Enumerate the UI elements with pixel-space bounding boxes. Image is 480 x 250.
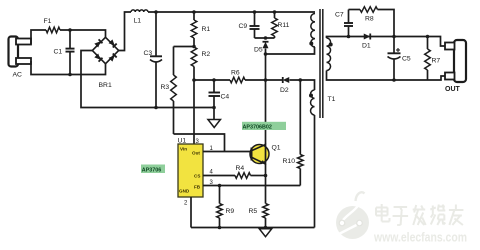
- resistor R2: [191, 47, 197, 80]
- label C7: [335, 12, 344, 19]
- svg-text:FB: FB: [194, 185, 201, 190]
- capacitor C5 electrolytic: [388, 37, 401, 81]
- junction C9 top: [253, 10, 257, 14]
- svg-text:R9: R9: [226, 208, 235, 215]
- svg-text:R2: R2: [202, 51, 211, 58]
- svg-text:AC: AC: [13, 72, 23, 79]
- resistor R4: [235, 173, 251, 179]
- svg-text:R5: R5: [249, 208, 258, 215]
- label D5: [254, 47, 263, 54]
- bridge diode bottom-left: [94, 54, 102, 62]
- svg-text:R3: R3: [161, 84, 170, 91]
- highlight label AP3706B02: [242, 122, 286, 131]
- wire secondary top rail: [327, 37, 446, 47]
- wire U1 pin 1 to Q1 base: [203, 151, 252, 153]
- junction C3 top: [154, 10, 158, 14]
- pin 3 lower label: [210, 180, 214, 186]
- wire U1 pin 2 ground: [190, 197, 192, 228]
- label R6: [231, 70, 240, 77]
- wire top AC rail to bridge: [60, 30, 106, 38]
- label AC: [13, 72, 23, 79]
- U1 pin name Vin: [180, 147, 187, 152]
- junction C4 ground on negative rail: [212, 106, 216, 110]
- svg-text:BR1: BR1: [99, 82, 112, 89]
- highlight label AP3706 near U1: [141, 165, 165, 174]
- wire snubber top: [349, 9, 361, 11]
- junction C4 top: [212, 78, 216, 82]
- capacitor C1: [66, 30, 75, 75]
- junction C1 bottom: [68, 73, 72, 77]
- wire R1-R2 junction to R3: [174, 46, 195, 48]
- wire main DC rail: [148, 11, 315, 13]
- AC input plug connector: [9, 37, 32, 67]
- diode D1: [364, 34, 371, 40]
- label R4: [236, 165, 245, 172]
- pin 4 label: [210, 170, 214, 176]
- svg-text:C4: C4: [221, 94, 230, 101]
- svg-text:OUT: OUT: [445, 86, 461, 93]
- wire AC neutral return: [31, 61, 106, 75]
- U1 pin name GND: [179, 189, 190, 194]
- label R11: [278, 22, 290, 29]
- junction switch node top: [264, 52, 268, 56]
- svg-text:CS: CS: [194, 174, 200, 179]
- junction C5 top: [392, 35, 396, 39]
- wire bridge positive to L1: [119, 12, 131, 51]
- svg-text:R8: R8: [365, 16, 374, 23]
- svg-text:U1: U1: [178, 138, 187, 145]
- svg-text:C7: C7: [335, 12, 344, 19]
- wire bridge negative to ground rail: [81, 51, 214, 108]
- label D2: [280, 87, 289, 94]
- svg-text:Vin: Vin: [180, 147, 187, 152]
- label D1: [362, 43, 371, 50]
- resistor R11: [272, 12, 278, 38]
- junction emitter sense node: [264, 174, 268, 178]
- U1 pin name FB: [194, 185, 201, 190]
- pin 1 label: [210, 146, 214, 152]
- capacitor C9: [250, 12, 260, 38]
- wire R3 to base-bias node: [174, 134, 225, 152]
- wire U1 pin 4 CS: [203, 175, 235, 177]
- bridge diode top-right: [109, 39, 117, 47]
- junction C7 tap: [347, 35, 351, 39]
- pin 2 label: [184, 201, 188, 207]
- wire switch node vertical to Q1 collector: [265, 54, 267, 144]
- bridge diode bottom-right: [109, 54, 117, 62]
- wire Q1 emitter to R5: [265, 164, 267, 204]
- svg-text:D2: D2: [280, 87, 289, 94]
- wire U1 pin 3 FB: [203, 185, 300, 187]
- transformer T1 primary winding: [311, 14, 315, 48]
- junction D5 top: [264, 36, 268, 40]
- junction R1 top: [192, 10, 196, 14]
- primary phase dot: [309, 42, 313, 46]
- svg-text:D5: D5: [254, 47, 263, 54]
- ground symbol signal: [259, 229, 272, 237]
- capacitor C3 electrolytic: [150, 12, 162, 108]
- bridge rectifier BR1 diamond: [92, 37, 118, 63]
- label U1: [178, 138, 187, 145]
- svg-text:F1: F1: [44, 18, 52, 25]
- label R10: [283, 158, 296, 165]
- label L1: [134, 18, 142, 25]
- pin 3 label: [196, 139, 200, 145]
- capacitor C4: [209, 80, 221, 120]
- resistor R8: [360, 7, 378, 13]
- wire signal ground rail: [191, 227, 315, 229]
- junction R9 bottom: [218, 226, 222, 230]
- wire aux winding return: [314, 115, 316, 228]
- label C1: [54, 49, 63, 56]
- wire Vcc vertical to U1 pin 3: [193, 80, 195, 144]
- svg-text:C5: C5: [402, 56, 411, 63]
- svg-text:R6: R6: [231, 70, 240, 77]
- ground symbol primary: [208, 120, 221, 128]
- svg-text:L1: L1: [134, 18, 142, 25]
- svg-text:www.elecfans.com: www.elecfans.com: [373, 231, 467, 245]
- wire D2 to aux winding: [290, 80, 315, 90]
- junction switch node on Vcc line: [264, 78, 268, 82]
- svg-text:R7: R7: [432, 58, 441, 65]
- label R2: [202, 51, 211, 58]
- junction R1 R2 R3: [192, 45, 196, 49]
- U1 pin name Out: [192, 151, 200, 156]
- junction R11 top: [273, 10, 277, 14]
- junction C3 bottom on negative rail: [154, 106, 158, 110]
- label OUT: [445, 86, 461, 93]
- bridge diode top-left: [94, 39, 102, 47]
- svg-text:C9: C9: [239, 23, 248, 30]
- svg-text:D1: D1: [362, 43, 371, 50]
- junction R7 top: [426, 35, 430, 39]
- wire clamp bottom: [255, 37, 275, 39]
- label R9: [226, 208, 235, 215]
- junction C1 top: [68, 28, 72, 32]
- resistor R3: [171, 47, 177, 135]
- svg-text:Out: Out: [192, 151, 200, 156]
- label C3: [144, 50, 153, 57]
- wire R6 to D2: [245, 79, 283, 81]
- junction R9 top: [218, 184, 222, 188]
- fuse F1: [46, 27, 60, 33]
- auxiliary phase dot: [309, 94, 313, 98]
- resistor R6: [230, 77, 245, 83]
- svg-text:C1: C1: [54, 49, 63, 56]
- wire secondary bottom rail: [327, 71, 446, 81]
- label C4: [221, 94, 230, 101]
- resistor R7: [425, 37, 431, 81]
- transformer auxiliary winding: [311, 90, 315, 115]
- label C5: [402, 56, 411, 63]
- wire switch node to primary bottom: [266, 47, 315, 54]
- wire R4 to emitter node: [251, 175, 266, 177]
- junction Vcc node: [192, 78, 196, 82]
- transformer core: [320, 9, 323, 118]
- secondary phase dot: [329, 43, 333, 47]
- output plug connector OUT: [445, 40, 466, 82]
- svg-text:R11: R11: [278, 22, 290, 29]
- label Q1: [272, 145, 281, 152]
- watermark elecfans logo and text: [336, 192, 467, 244]
- label R7: [432, 58, 441, 65]
- diode D5: [263, 42, 269, 49]
- svg-text:T1: T1: [328, 96, 336, 103]
- wire AC live riser: [31, 30, 46, 44]
- junction R10 top: [299, 78, 303, 82]
- junction C5 bottom: [392, 78, 396, 82]
- label R8: [365, 16, 374, 23]
- svg-text:Q1: Q1: [272, 145, 281, 152]
- label C9: [239, 23, 248, 30]
- transformer secondary winding: [327, 38, 331, 70]
- transistor Q1: [250, 144, 269, 165]
- label R3: [161, 84, 170, 91]
- resistor R5: [263, 204, 269, 228]
- label T1: [328, 96, 336, 103]
- svg-text:AP3706: AP3706: [142, 167, 161, 173]
- op-amp U1 AP3706 controller box: [178, 144, 203, 197]
- label F1: [44, 18, 52, 25]
- junction R5 bottom: [264, 226, 268, 230]
- svg-text:AP3706B02: AP3706B02: [243, 125, 272, 131]
- svg-text:GND: GND: [179, 189, 190, 194]
- label BR1: [99, 82, 112, 89]
- svg-text:R1: R1: [202, 26, 211, 33]
- U1 pin name CS: [194, 174, 200, 179]
- resistor R9: [217, 186, 223, 228]
- resistor R1: [191, 12, 197, 47]
- wire R8 to diode node: [378, 10, 395, 37]
- label R1: [202, 26, 211, 33]
- svg-text:C3: C3: [144, 50, 153, 57]
- svg-text:R4: R4: [236, 165, 245, 172]
- resistor R10: [298, 80, 304, 186]
- diode D2: [283, 77, 290, 83]
- inductor L1: [131, 10, 148, 12]
- label R5: [249, 208, 258, 215]
- svg-text:R10: R10: [283, 158, 296, 165]
- capacitor C7: [344, 10, 353, 37]
- wire Vcc horizontal rail: [194, 79, 230, 81]
